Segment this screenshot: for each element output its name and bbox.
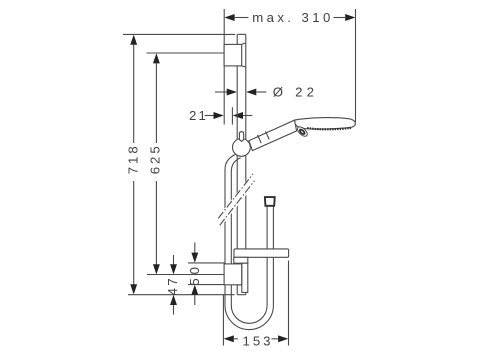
dimension Ø22 bbox=[215, 84, 318, 99]
hose end connector (conical nut) bbox=[265, 197, 275, 206]
nozzle strip (spray nozzles under head) bbox=[307, 128, 351, 129]
shelf clamp back plate bbox=[242, 263, 248, 292]
wire: top datum line (718 top reference) bbox=[123, 33, 235, 35]
holder knob (locking pin) bbox=[239, 132, 243, 142]
dimension 47 bbox=[165, 255, 180, 315]
hose (shower hose: left drop, bottom U-loop, right rise) bbox=[225, 154, 273, 329]
svg-text:153: 153 bbox=[242, 333, 273, 348]
wall bracket (top) bbox=[224, 43, 246, 67]
wall bar (rail tube) bbox=[237, 34, 246, 294]
dimension 21 bbox=[189, 107, 252, 124]
dimension 718 bbox=[125, 35, 140, 295]
shower head bbox=[295, 118, 356, 130]
wire: bottom datum line (rail lower end reference) bbox=[128, 294, 235, 296]
svg-text:718: 718 bbox=[125, 143, 140, 174]
bottom bracket (rail end slider) bbox=[224, 264, 242, 285]
wire: tick line y=284.6 (bracket bottom reference) bbox=[188, 284, 225, 286]
dimension 50 bbox=[187, 243, 202, 306]
break symbol (rail shortening) bbox=[218, 172, 257, 227]
dimension 153 bbox=[223, 261, 288, 349]
holder ring (slider on rail) bbox=[233, 139, 251, 157]
svg-text:max. 310: max. 310 bbox=[252, 10, 333, 25]
wire: tick line y=262.9 (bracket top reference) bbox=[188, 262, 225, 264]
svg-text:Ø 22: Ø 22 bbox=[273, 84, 318, 99]
spray face (outer ring) bbox=[296, 125, 309, 138]
dimension 625 bbox=[148, 53, 163, 274]
spray face (inner ring) bbox=[299, 129, 305, 135]
shelf clamp step bbox=[234, 257, 248, 263]
svg-text:625: 625 bbox=[148, 143, 163, 174]
dimension max. 310 bbox=[224, 9, 355, 125]
svg-text:47: 47 bbox=[165, 276, 180, 296]
shelf (soap dish) bbox=[234, 249, 289, 257]
wire: tick line y=274.5 (bracket hole reference) bbox=[147, 274, 225, 276]
hand shower handle bbox=[249, 120, 297, 151]
wire: bracket datum line (625 top reference) bbox=[147, 52, 225, 54]
